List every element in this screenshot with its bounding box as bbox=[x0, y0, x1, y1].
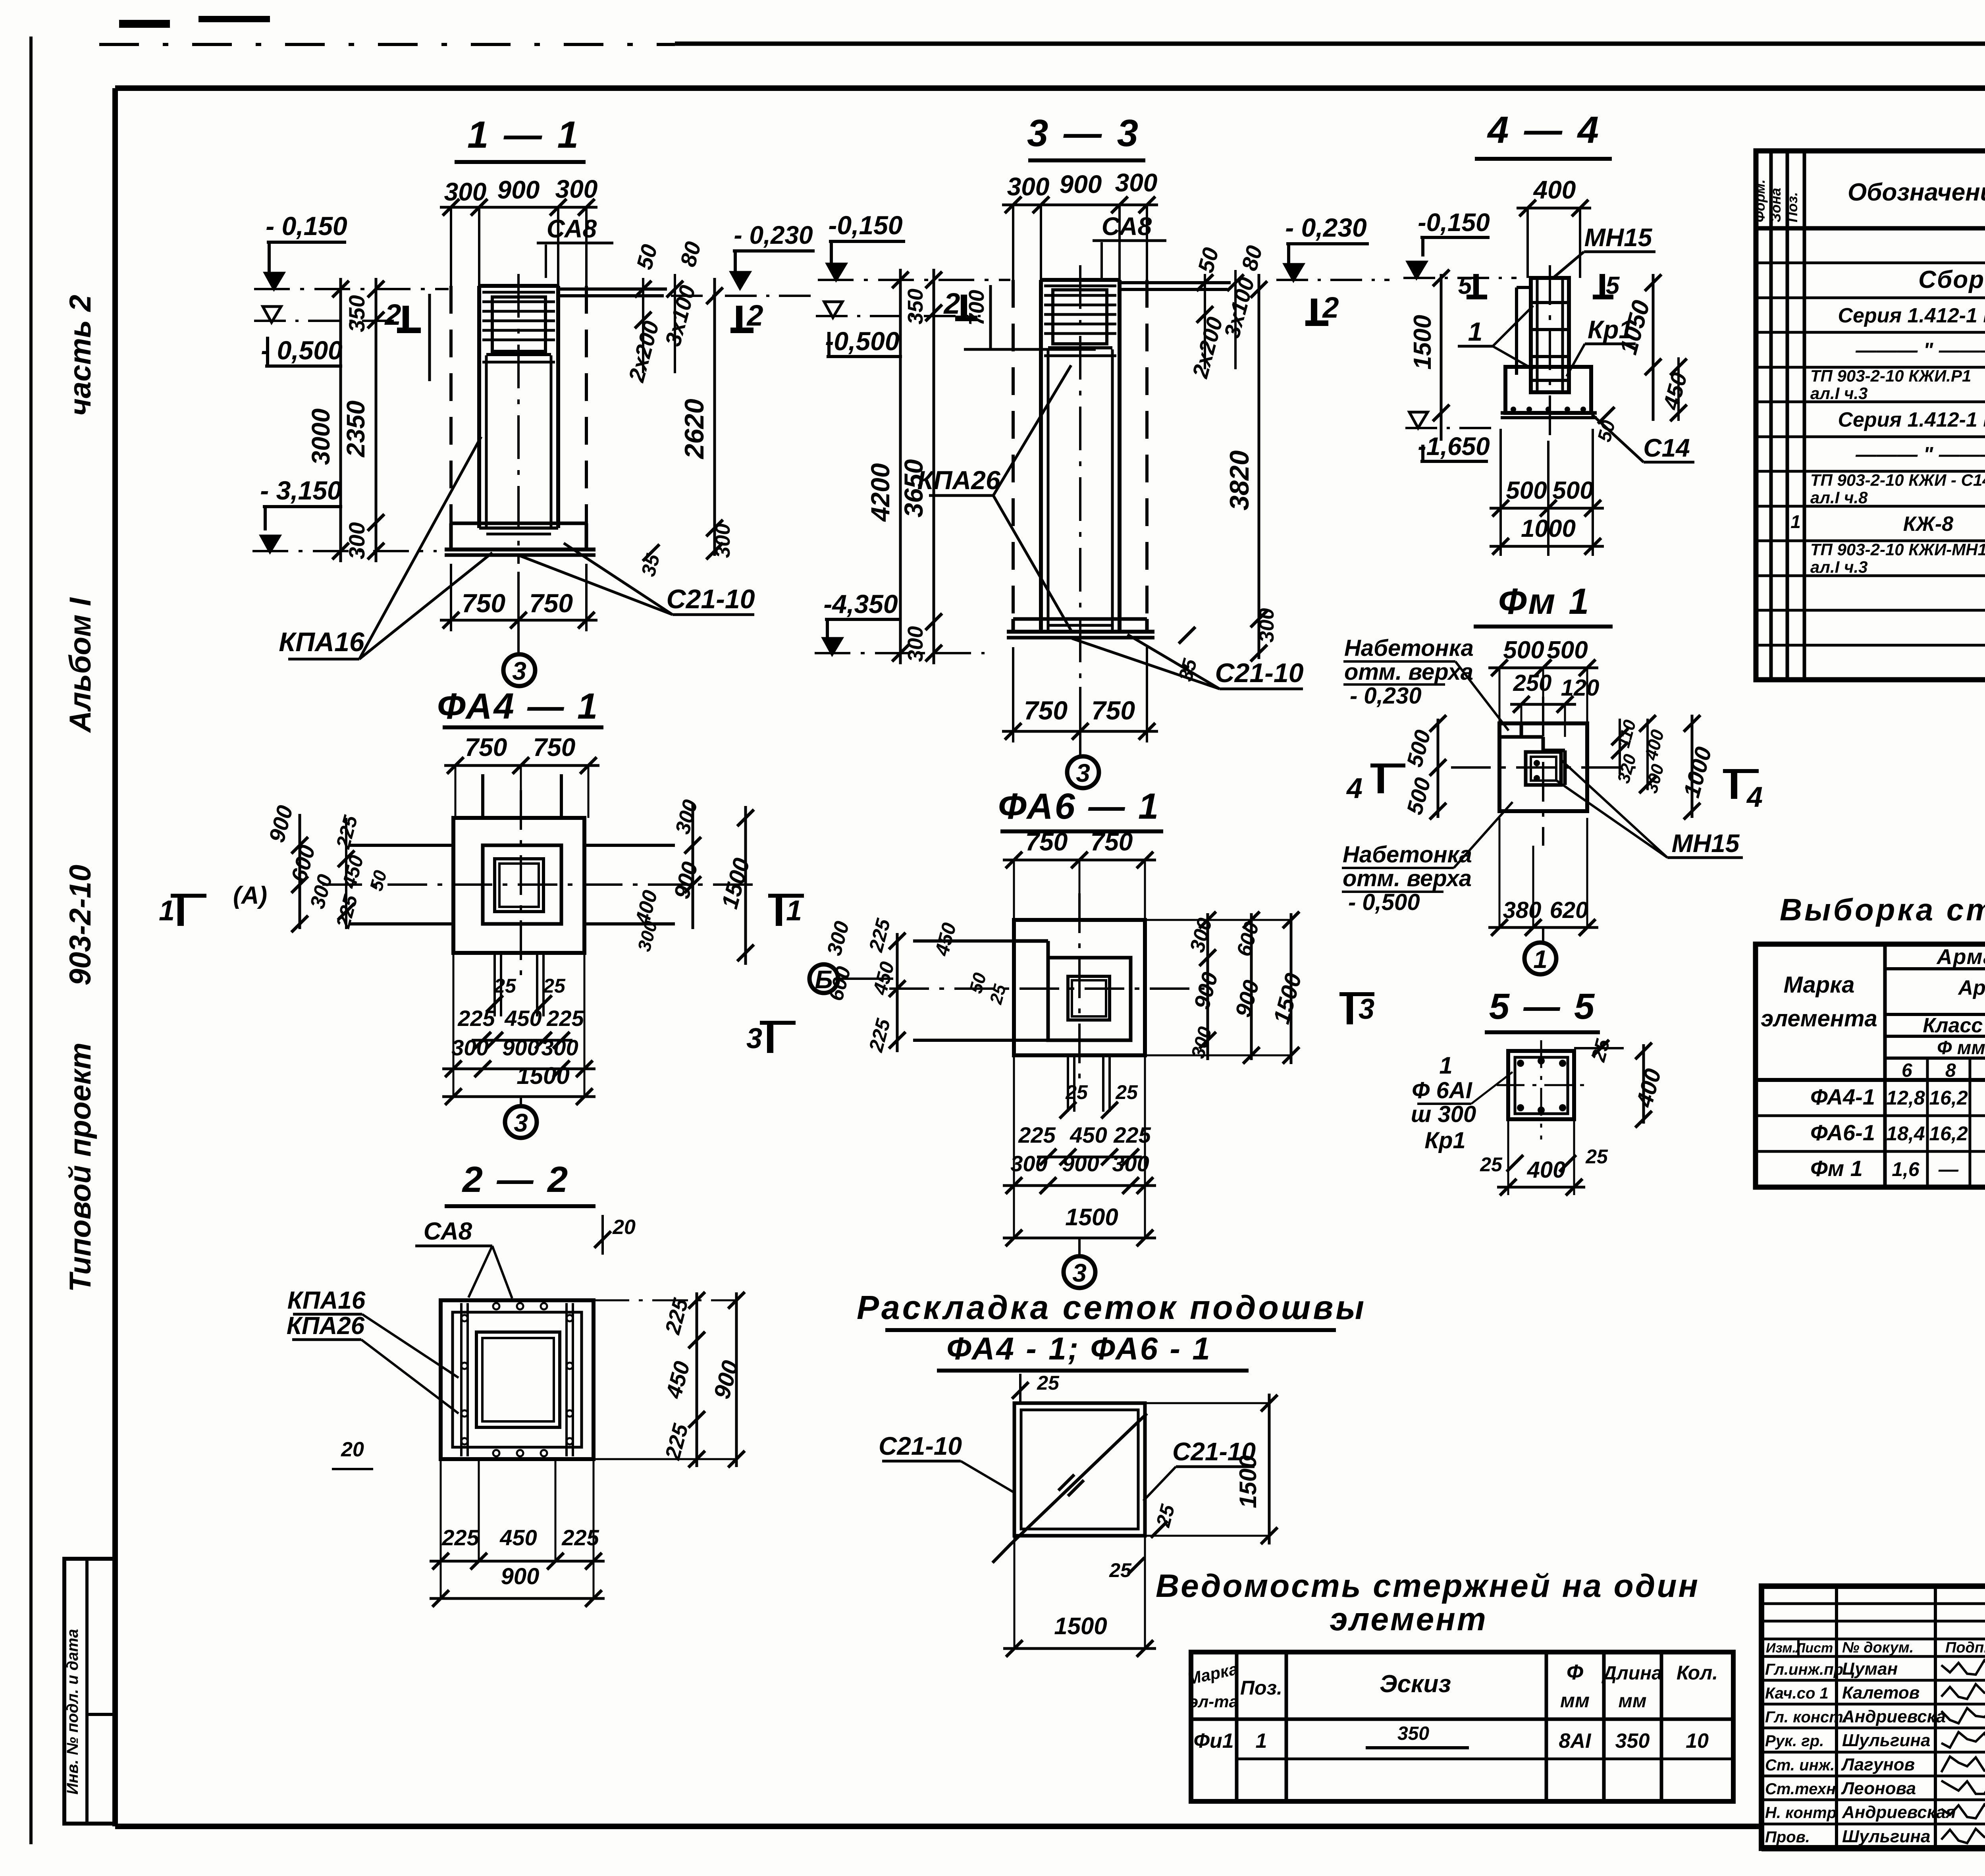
plan FA4-1 wall lines above bbox=[481, 774, 484, 818]
svg-text:750: 750 bbox=[1091, 696, 1135, 725]
svg-text:КПА26: КПА26 bbox=[287, 1312, 365, 1340]
svg-text:Гл.инж.пр.: Гл.инж.пр. bbox=[1765, 1661, 1848, 1678]
section 4-4 formwork line left bbox=[1515, 287, 1518, 375]
svg-text:Гл. конст.: Гл. конст. bbox=[1765, 1708, 1847, 1726]
svg-text:Поз.: Поз. bbox=[1240, 1677, 1282, 1699]
svg-text:——— " ———: ——— " ——— bbox=[1855, 339, 1985, 362]
page border: outer dashed top rule bbox=[99, 43, 675, 46]
svg-text:С21-10: С21-10 bbox=[879, 1432, 962, 1460]
svg-text:- 0,230: - 0,230 bbox=[1350, 683, 1422, 709]
plan Fm1 axis bubble 1 bbox=[1542, 927, 1544, 942]
svg-text:6: 6 bbox=[1902, 1060, 1912, 1081]
svg-text:МН15: МН15 bbox=[1672, 829, 1740, 858]
svg-text:мм: мм bbox=[1618, 1691, 1646, 1712]
mesh layout mesh square C21-10 bbox=[1014, 1403, 1145, 1536]
svg-text:4200: 4200 bbox=[865, 463, 895, 522]
svg-text:- 3,150: - 3,150 bbox=[260, 476, 342, 505]
section 1-1 bottom dim 750 750 bbox=[450, 564, 452, 631]
svg-text:900: 900 bbox=[497, 175, 540, 204]
svg-text:-1,650: -1,650 bbox=[1418, 432, 1490, 461]
svg-text:Ф: Ф bbox=[1567, 1660, 1583, 1684]
section 3-3 column body bbox=[1039, 280, 1043, 632]
mesh layout dim 1500 right bbox=[1268, 1394, 1271, 1544]
svg-text:400: 400 bbox=[1533, 175, 1576, 204]
section 1-1 left dimension chain 3000 2350 350 300 bbox=[339, 278, 342, 562]
svg-text:Изм.Лист: Изм.Лист bbox=[1766, 1641, 1833, 1656]
svg-text:- 0,500: - 0,500 bbox=[1348, 889, 1420, 915]
svg-text:СА8: СА8 bbox=[424, 1218, 472, 1245]
svg-text:300: 300 bbox=[344, 522, 369, 559]
svg-text:20: 20 bbox=[612, 1216, 636, 1239]
plan FA4-1 right dim stack 300 900 1500 400 300 bbox=[692, 804, 694, 929]
svg-text:—: — bbox=[1938, 1158, 1959, 1180]
section 3-3 column centerline bbox=[1079, 265, 1081, 687]
svg-text:Типовой проект: Типовой проект bbox=[64, 1043, 97, 1292]
svg-text:20: 20 bbox=[341, 1438, 364, 1461]
svg-text:Зона: Зона bbox=[1767, 188, 1784, 222]
svg-text:ТП 903-2-10 КЖИ.Р1: ТП 903-2-10 КЖИ.Р1 bbox=[1810, 366, 1971, 385]
svg-text:Ст. инж.: Ст. инж. bbox=[1765, 1756, 1835, 1774]
svg-text:Кр1: Кр1 bbox=[1588, 315, 1633, 344]
svg-text:3000: 3000 bbox=[306, 409, 335, 465]
plan FA4-1 wall lines left and right bbox=[349, 844, 453, 847]
svg-text:Фи1: Фи1 bbox=[1193, 1729, 1233, 1753]
section 3-3 left dimension chain 4200 3650 350 700 300 bbox=[899, 269, 902, 664]
svg-text:- 0,230: - 0,230 bbox=[1285, 213, 1367, 242]
svg-text:1: 1 bbox=[1256, 1729, 1267, 1753]
svg-text:Леонова: Леонова bbox=[1841, 1779, 1916, 1798]
svg-text:350: 350 bbox=[1397, 1723, 1429, 1744]
svg-text:ал.I ч.8: ал.I ч.8 bbox=[1810, 488, 1868, 507]
svg-text:Серия 1.412-1 в. II: Серия 1.412-1 в. II bbox=[1838, 409, 1985, 432]
svg-text:2: 2 bbox=[943, 287, 960, 320]
section 1-1 footing bbox=[451, 522, 586, 525]
svg-text:25: 25 bbox=[493, 975, 516, 997]
svg-text:300: 300 bbox=[541, 1035, 578, 1060]
svg-text:3: 3 bbox=[514, 1109, 528, 1137]
svg-text:- 0,150: - 0,150 bbox=[266, 211, 347, 241]
svg-text:Арматурная сталь: Арматурная сталь bbox=[1958, 976, 1985, 999]
svg-text:8АI: 8АI bbox=[1559, 1729, 1592, 1753]
svg-text:КПА16: КПА16 bbox=[279, 627, 365, 657]
svg-text:3: 3 bbox=[1076, 759, 1090, 787]
svg-text:Серия 1.412-1 в. II: Серия 1.412-1 в. II bbox=[1838, 304, 1985, 327]
svg-text:225: 225 bbox=[1018, 1122, 1056, 1147]
svg-text:ТП 903-2-10 КЖИ - С14: ТП 903-2-10 КЖИ - С14 bbox=[1810, 471, 1985, 490]
svg-text:300: 300 bbox=[1112, 1151, 1149, 1176]
svg-text:380: 380 bbox=[1503, 897, 1542, 923]
plan FA4-1 footprint square bbox=[453, 818, 584, 953]
svg-text:25: 25 bbox=[1480, 1153, 1503, 1176]
mesh layout diagonal bbox=[992, 1413, 1147, 1563]
svg-text:750: 750 bbox=[529, 588, 573, 618]
svg-text:ФА6-1: ФА6-1 bbox=[1810, 1120, 1875, 1145]
section 2-2 vertical cage bars with studs bbox=[460, 1303, 463, 1456]
section 3-3 axis bubble 3 bbox=[1079, 742, 1081, 757]
svg-text:300: 300 bbox=[1010, 1151, 1047, 1176]
plan Fm1 centerlines bbox=[1451, 766, 1636, 769]
svg-text:1500: 1500 bbox=[516, 1062, 569, 1089]
svg-text:Инв. № подл. и дата: Инв. № подл. и дата bbox=[64, 1629, 81, 1795]
plan FA4-1 centerlines bbox=[322, 883, 762, 886]
plan FA6-1 wall lines left bbox=[913, 939, 1014, 943]
left margin stamp box bbox=[64, 1559, 115, 1824]
plan Fm1 right dim stack 110 390 400 300 1000 bbox=[1619, 719, 1621, 774]
svg-text:12,8: 12,8 bbox=[1886, 1087, 1925, 1109]
svg-text:элемент: элемент bbox=[1330, 1601, 1487, 1637]
svg-text:ал.I ч.3: ал.I ч.3 bbox=[1810, 384, 1868, 403]
svg-text:2: 2 bbox=[384, 298, 401, 331]
svg-text:300: 300 bbox=[904, 626, 927, 662]
svg-text:300: 300 bbox=[1255, 608, 1278, 643]
section 1-1 excavation dashed outline bbox=[449, 286, 453, 528]
svg-text:1500: 1500 bbox=[1065, 1204, 1118, 1230]
svg-text:3: 3 bbox=[746, 1023, 762, 1055]
page border: outer left thin rule bbox=[29, 37, 33, 1844]
plan FA4-1 left dim stack 900 600 300 225 450 50 225 bbox=[299, 814, 301, 929]
svg-text:1000: 1000 bbox=[1521, 515, 1576, 542]
svg-text:500: 500 bbox=[1552, 477, 1593, 504]
section 1-1 column centerline bbox=[517, 274, 520, 564]
plan FA6-1 step notch upper-left bbox=[1014, 939, 1048, 943]
svg-text:25: 25 bbox=[543, 975, 566, 997]
steel table header structure bbox=[1883, 944, 1887, 1187]
svg-text:Сборочные единицы и детали: Сборочные единицы и детали bbox=[1918, 266, 1985, 293]
svg-text:750: 750 bbox=[1024, 696, 1068, 725]
svg-text:Фм 1: Фм 1 bbox=[1810, 1156, 1863, 1181]
svg-text:4 — 4: 4 — 4 bbox=[1487, 109, 1601, 151]
svg-text:1: 1 bbox=[1790, 511, 1801, 532]
svg-text:350: 350 bbox=[1615, 1729, 1650, 1753]
svg-text:225: 225 bbox=[457, 1006, 495, 1031]
svg-text:эл-та: эл-та bbox=[1189, 1692, 1238, 1711]
svg-text:900: 900 bbox=[501, 1564, 540, 1589]
svg-text:Арматурные изделия: Арматурные изделия bbox=[1936, 945, 1985, 969]
svg-text:25: 25 bbox=[1109, 1559, 1132, 1581]
plan FA6-1 centerlines bbox=[889, 987, 1215, 990]
svg-text:Подп.: Подп. bbox=[1945, 1639, 1985, 1656]
plan FA4-1 column square bbox=[483, 845, 561, 924]
svg-text:Длина: Длина bbox=[1601, 1663, 1662, 1684]
svg-text:3 — 3: 3 — 3 bbox=[1027, 112, 1141, 154]
plan Fm1 anchor plate MH15 bbox=[1526, 752, 1561, 785]
svg-text:Лагунов: Лагунов bbox=[1841, 1755, 1915, 1774]
svg-text:225: 225 bbox=[441, 1525, 479, 1550]
section 1-1 right dim 2620 bbox=[713, 278, 716, 556]
svg-text:ал.I ч.3: ал.I ч.3 bbox=[1810, 558, 1868, 576]
svg-text:4: 4 bbox=[1746, 781, 1763, 813]
svg-text:25: 25 bbox=[1115, 1081, 1138, 1103]
svg-text:С14: С14 bbox=[1643, 434, 1690, 462]
svg-text:2: 2 bbox=[1322, 291, 1339, 324]
steel table outer grid bbox=[1756, 944, 1985, 1187]
section 3-3 floor slab lines right bbox=[1120, 281, 1231, 284]
svg-text:Калетов: Калетов bbox=[1842, 1683, 1919, 1702]
svg-text:№ докум.: № докум. bbox=[1842, 1639, 1914, 1656]
rod list table grid bbox=[1191, 1652, 1733, 1801]
svg-text:Класс АI: Класс АI bbox=[1923, 1014, 1985, 1037]
svg-text:Рук. гр.: Рук. гр. bbox=[1765, 1732, 1824, 1750]
section 1-1 axis bubble 3 bbox=[517, 631, 520, 655]
svg-text:1,6: 1,6 bbox=[1892, 1158, 1920, 1180]
svg-text:Цуман: Цуман bbox=[1842, 1659, 1898, 1679]
svg-text:900: 900 bbox=[1060, 170, 1102, 199]
section 4-4 centerline bbox=[1549, 265, 1551, 441]
section 2-2 right dim chain 225 450 225 900 bbox=[696, 1292, 698, 1467]
spec table row lines bbox=[1756, 262, 1985, 264]
svg-text:750: 750 bbox=[462, 588, 505, 618]
plan FA6-1 left dim stack bbox=[896, 933, 899, 1052]
svg-text:Кр1: Кр1 bbox=[1424, 1128, 1465, 1153]
section 3-3 right dim 3820 300 bbox=[1258, 274, 1260, 659]
svg-text:900: 900 bbox=[1062, 1151, 1099, 1176]
section 1-1 floor slab lines right bbox=[558, 287, 667, 291]
svg-text:1: 1 bbox=[1533, 945, 1548, 974]
svg-text:отм. верха: отм. верха bbox=[1343, 866, 1472, 891]
svg-text:225: 225 bbox=[546, 1006, 584, 1031]
svg-text:1: 1 bbox=[1468, 317, 1483, 346]
svg-text:КПА16: КПА16 bbox=[287, 1287, 366, 1314]
svg-text:мм: мм bbox=[1560, 1689, 1590, 1712]
svg-text:4: 4 bbox=[1346, 773, 1363, 804]
section 4-4 right dims 1050 450 bbox=[1652, 274, 1655, 421]
svg-text:2620: 2620 bbox=[679, 399, 709, 459]
svg-text:120: 120 bbox=[1561, 675, 1600, 701]
plan FA6-1 footprint square bbox=[1014, 920, 1145, 1055]
section 3-3 mesh CA8 hatch block bbox=[1044, 285, 1116, 287]
svg-text:Марка: Марка bbox=[1783, 972, 1854, 998]
svg-text:Ф мм: Ф мм bbox=[1937, 1037, 1985, 1059]
svg-text:СА8: СА8 bbox=[547, 214, 597, 243]
svg-text:2350: 2350 bbox=[341, 401, 370, 457]
svg-text:отм. верха: отм. верха bbox=[1344, 659, 1473, 685]
svg-text:Кач.со 1: Кач.со 1 bbox=[1765, 1685, 1829, 1702]
svg-text:300: 300 bbox=[555, 175, 598, 203]
svg-text:КПА26: КПА26 bbox=[917, 465, 1000, 495]
svg-text:750: 750 bbox=[1091, 827, 1133, 856]
svg-text:16,2: 16,2 bbox=[1929, 1087, 1968, 1109]
spec table outer grid bbox=[1756, 151, 1985, 680]
svg-text:10: 10 bbox=[1686, 1729, 1709, 1753]
svg-text:(А): (А) bbox=[233, 882, 267, 909]
svg-text:25: 25 bbox=[1037, 1372, 1060, 1394]
svg-text:450: 450 bbox=[1070, 1122, 1107, 1147]
svg-text:250: 250 bbox=[1513, 670, 1552, 696]
svg-text:450: 450 bbox=[499, 1525, 537, 1550]
svg-text:Н. контр: Н. контр bbox=[1765, 1804, 1837, 1822]
svg-text:1: 1 bbox=[1439, 1052, 1452, 1079]
svg-text:-0,150: -0,150 bbox=[828, 210, 902, 240]
svg-text:2 — 2: 2 — 2 bbox=[462, 1159, 570, 1200]
svg-text:Ф 6АI: Ф 6АI bbox=[1412, 1078, 1473, 1103]
section 4-4 footing block bbox=[1505, 367, 1591, 413]
svg-text:ФА4 — 1: ФА4 — 1 bbox=[437, 686, 599, 727]
svg-text:Андриевска: Андриевска bbox=[1842, 1707, 1946, 1726]
plan FA4-1 axis bubble 3 bbox=[520, 1097, 522, 1107]
svg-text:- 0,230: - 0,230 bbox=[734, 221, 813, 249]
svg-text:Раскладка сеток подошвы: Раскладка сеток подошвы bbox=[857, 1289, 1366, 1326]
svg-text:МН15: МН15 bbox=[1584, 223, 1653, 252]
svg-text:1500: 1500 bbox=[1409, 315, 1436, 370]
svg-text:2: 2 bbox=[746, 299, 763, 332]
svg-text:Обозначение: Обозначение bbox=[1848, 179, 1985, 206]
svg-text:300: 300 bbox=[444, 177, 487, 206]
svg-text:Альбом I: Альбом I bbox=[64, 597, 97, 733]
svg-text:350: 350 bbox=[904, 289, 927, 324]
section 1-1 column body bbox=[477, 286, 481, 528]
svg-text:С21-10: С21-10 bbox=[1215, 658, 1303, 688]
svg-text:Поз.: Поз. bbox=[1784, 192, 1800, 222]
svg-text:С21-10: С21-10 bbox=[666, 584, 755, 614]
section 4-4 bottom dims 500 500 1000 bbox=[1499, 429, 1502, 556]
svg-text:ФА4-1: ФА4-1 bbox=[1810, 1084, 1875, 1109]
svg-text:25: 25 bbox=[1585, 1145, 1608, 1168]
svg-text:Ст.техн: Ст.техн bbox=[1765, 1780, 1836, 1798]
svg-text:ТП 903-2-10 КЖИ-МН15: ТП 903-2-10 КЖИ-МН15 bbox=[1810, 540, 1985, 559]
svg-text:Набетонка: Набетонка bbox=[1344, 635, 1474, 661]
svg-text:300: 300 bbox=[1007, 172, 1050, 201]
svg-text:750: 750 bbox=[533, 733, 576, 762]
section 5-5 dim 400 right bbox=[1642, 1044, 1645, 1124]
svg-text:Шульгина: Шульгина bbox=[1842, 1731, 1930, 1750]
svg-text:500: 500 bbox=[1503, 636, 1544, 664]
spec table header row line bbox=[1756, 226, 1985, 231]
section 4-4 left dim 1500 bbox=[1440, 274, 1443, 441]
svg-text:Фм 1: Фм 1 bbox=[1498, 581, 1591, 622]
section 3-3 footing base bbox=[1013, 617, 1147, 621]
svg-text:16,2: 16,2 bbox=[1929, 1122, 1968, 1145]
svg-text:Выборка стали на один элем: Выборка стали на один элемент, кг bbox=[1780, 892, 1985, 927]
svg-text:Пров.: Пров. bbox=[1765, 1828, 1810, 1846]
svg-text:-0,500: -0,500 bbox=[825, 326, 899, 356]
svg-text:500: 500 bbox=[1547, 636, 1588, 664]
section 4-4 pier column with rungs bbox=[1531, 278, 1569, 392]
svg-text:3820: 3820 bbox=[1224, 450, 1255, 510]
svg-text:25: 25 bbox=[1065, 1081, 1088, 1103]
svg-text:Андриевская: Андриевская bbox=[1842, 1803, 1956, 1822]
plan FA6-1 dowels below bbox=[1067, 1055, 1069, 1112]
svg-text:300: 300 bbox=[711, 524, 734, 558]
plan FA6-1 inner hole bbox=[1068, 976, 1110, 1020]
svg-text:1500: 1500 bbox=[1054, 1613, 1107, 1639]
svg-text:Кол.: Кол. bbox=[1677, 1662, 1718, 1684]
svg-text:Ведомость стержней на один: Ведомость стержней на один bbox=[1156, 1568, 1700, 1604]
svg-text:3: 3 bbox=[1072, 1259, 1087, 1287]
plan FA6-1 axis bubble 3 bbox=[1078, 1238, 1081, 1257]
svg-text:-0,150: -0,150 bbox=[1418, 208, 1490, 237]
svg-text:1: 1 bbox=[159, 895, 175, 927]
svg-text:3: 3 bbox=[512, 657, 526, 685]
title block outer frame bbox=[1761, 1586, 1985, 1848]
svg-text:1: 1 bbox=[786, 895, 802, 927]
svg-text:300: 300 bbox=[1115, 168, 1158, 197]
svg-text:часть 2: часть 2 bbox=[64, 295, 97, 416]
axis bubble B between plans bbox=[809, 964, 838, 993]
plan FA6-1 right dim stack 300 600 900 900 1500 300 bbox=[1206, 913, 1209, 1060]
section 1-1 mesh CA8 hatch block bbox=[482, 291, 555, 294]
section 3-3 excavation dashed outline bbox=[1012, 280, 1015, 619]
svg-text:-4,350: -4,350 bbox=[823, 589, 898, 619]
svg-text:Форм.: Форм. bbox=[1752, 179, 1768, 222]
svg-text:Эскиз: Эскиз bbox=[1380, 1670, 1451, 1698]
page border: frame rectangle bbox=[115, 85, 1985, 91]
plan FA6-1 column square bbox=[1048, 958, 1131, 1040]
svg-text:——— " ———: ——— " ——— bbox=[1855, 443, 1985, 466]
plan FA4-1 inner hole bbox=[495, 859, 543, 912]
svg-text:620: 620 bbox=[1550, 897, 1588, 923]
section 3-3 bottom dim 750 750 bbox=[1012, 647, 1014, 742]
svg-text:КЖ-8: КЖ-8 bbox=[1903, 513, 1954, 536]
svg-text:1500: 1500 bbox=[1235, 1455, 1261, 1508]
svg-text:Набетонка: Набетонка bbox=[1343, 842, 1472, 868]
plan Fm1 left dims 500 500 bbox=[1437, 719, 1440, 818]
svg-text:500: 500 bbox=[1506, 477, 1547, 504]
svg-text:300: 300 bbox=[451, 1035, 488, 1060]
svg-text:750: 750 bbox=[465, 733, 507, 762]
svg-text:18,4: 18,4 bbox=[1886, 1122, 1925, 1145]
svg-text:8: 8 bbox=[1945, 1060, 1956, 1081]
svg-text:903-2-10: 903-2-10 bbox=[64, 865, 97, 985]
svg-text:Шульгина: Шульгина bbox=[1842, 1827, 1930, 1846]
svg-text:5 — 5: 5 — 5 bbox=[1489, 986, 1596, 1027]
plan Fm1 body with step bbox=[1499, 723, 1587, 811]
svg-text:СА8: СА8 bbox=[1102, 212, 1152, 241]
svg-text:750: 750 bbox=[1025, 827, 1068, 856]
svg-text:350: 350 bbox=[344, 295, 369, 332]
page border: scan smudges top-left bbox=[119, 20, 170, 28]
svg-text:3: 3 bbox=[1359, 993, 1374, 1025]
svg-text:ФА4 - 1; ФА6 - 1: ФА4 - 1; ФА6 - 1 bbox=[946, 1331, 1211, 1366]
svg-text:ш 300: ш 300 bbox=[1411, 1101, 1476, 1127]
svg-text:450: 450 bbox=[504, 1006, 542, 1031]
svg-text:элемента: элемента bbox=[1761, 1006, 1877, 1032]
svg-text:- 0,500: - 0,500 bbox=[261, 335, 343, 365]
section 2-2 cage square bbox=[441, 1300, 594, 1459]
svg-text:900: 900 bbox=[502, 1035, 539, 1060]
svg-text:ФА6 — 1: ФА6 — 1 bbox=[998, 786, 1160, 827]
plan FA4-1 dowels below bbox=[493, 953, 496, 1016]
section 5-5 stirrup square bbox=[1508, 1051, 1574, 1119]
svg-text:1 — 1: 1 — 1 bbox=[467, 114, 581, 156]
